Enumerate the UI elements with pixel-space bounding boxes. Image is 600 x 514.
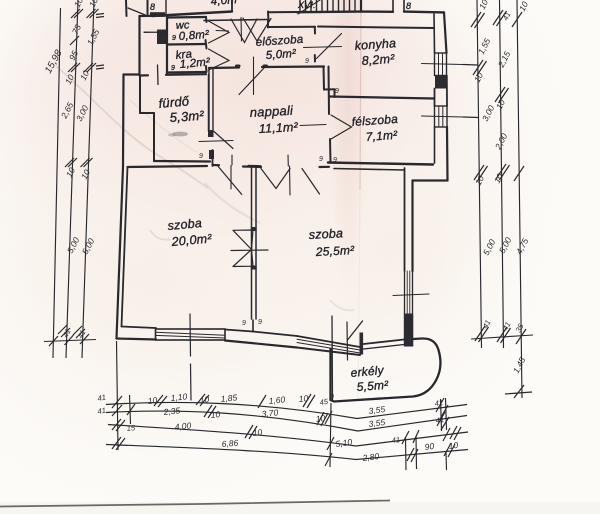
félszoba left wall upper bbox=[328, 67, 331, 115]
wc door extra tick bbox=[216, 30, 229, 33]
svg-text:9: 9 bbox=[330, 394, 334, 401]
svg-text:2,35: 2,35 bbox=[162, 405, 181, 417]
chain B4 bbox=[106, 445, 468, 460]
bottom dim labels bbox=[97, 391, 459, 463]
bottom wall szoba20 right part inner bbox=[225, 330, 253, 332]
witness line left inner bbox=[130, 395, 131, 424]
ticks y67 bbox=[68, 63, 80, 72]
smudge szoba20 curl bbox=[150, 230, 170, 240]
svg-text:10: 10 bbox=[210, 409, 221, 420]
top wall stairs to door8 bbox=[361, 10, 393, 13]
konyha left wall upper w/ door bbox=[314, 27, 316, 34]
duct hatched block bbox=[157, 30, 167, 45]
chain B2 bbox=[106, 411, 467, 431]
svg-text:9: 9 bbox=[335, 88, 339, 95]
svg-text:3,55: 3,55 bbox=[368, 417, 386, 429]
entry door swings (double leaf) bbox=[231, 19, 257, 43]
ticks R3 top bbox=[512, 12, 522, 27]
wall block below window (filled) bbox=[404, 314, 414, 347]
stair arrow bbox=[298, 0, 320, 14]
nappali-szoba20 door swing bbox=[218, 166, 242, 194]
room TL left wall stub bbox=[147, 0, 149, 14]
shaft left of wc bbox=[140, 14, 168, 17]
svg-text:10: 10 bbox=[252, 427, 263, 438]
konyha top inner wall bbox=[267, 21, 269, 28]
svg-text:1,60: 1,60 bbox=[268, 394, 286, 406]
fürdő left wall upper bbox=[139, 76, 141, 114]
svg-text:nappali: nappali bbox=[249, 103, 294, 120]
B1 ticks bbox=[112, 396, 122, 408]
svg-text:9: 9 bbox=[172, 35, 176, 42]
svg-text:25,5m²: 25,5m² bbox=[314, 243, 355, 259]
svg-text:6,86: 6,86 bbox=[221, 438, 239, 449]
smudge előszoba curl bbox=[205, 183, 260, 223]
félszoba inner right wall bbox=[434, 127, 436, 164]
konyha bottom wall = félszoba top bbox=[330, 97, 434, 99]
fürdő door joint block bbox=[208, 130, 214, 137]
chain B1 bbox=[106, 402, 467, 418]
B2 ticks bbox=[112, 405, 122, 416]
B3 ticks bbox=[112, 419, 125, 431]
konyha door leaf bbox=[317, 34, 342, 59]
door 8 swing top-left bbox=[128, 8, 149, 17]
nappali top door swing into nappali bbox=[239, 68, 264, 95]
svg-text:10: 10 bbox=[199, 394, 210, 405]
nappali top wall bbox=[209, 66, 239, 69]
9 markers bbox=[199, 58, 339, 401]
room TL corner block bbox=[150, 12, 165, 17]
ticks R2 y95 bbox=[495, 87, 509, 103]
svg-text:1,10: 1,10 bbox=[170, 391, 188, 403]
wall between windows (filled) bbox=[435, 76, 447, 89]
window inner lines bbox=[156, 332, 226, 338]
ticks R1 top bbox=[471, 12, 485, 28]
svg-text:9: 9 bbox=[319, 156, 323, 163]
konyha door crossing line bbox=[304, 47, 342, 48]
svg-text:szoba: szoba bbox=[167, 216, 202, 233]
right outer upper segment bbox=[444, 12, 447, 53]
B4 ticks bbox=[112, 437, 125, 450]
svg-text:5,3m²: 5,3m² bbox=[169, 108, 205, 125]
svg-text:8: 8 bbox=[406, 1, 411, 11]
right inner line upper bbox=[433, 14, 436, 53]
fürdő step bbox=[140, 112, 154, 114]
svg-text:9: 9 bbox=[305, 58, 309, 65]
konyha/nappali jog bbox=[324, 67, 335, 98]
szoba20 top wall bbox=[128, 166, 208, 167]
chain B3 bbox=[108, 425, 468, 447]
svg-text:9: 9 bbox=[333, 157, 337, 164]
svg-text:7,1m²: 7,1m² bbox=[365, 128, 398, 144]
room TL inner vertical bbox=[165, 0, 167, 15]
right dim labels bbox=[472, 0, 531, 375]
fürdő door crossing line bbox=[199, 141, 233, 142]
window center tick bbox=[190, 314, 191, 400]
svg-text:41: 41 bbox=[391, 435, 400, 445]
fürdő right wall double bbox=[208, 75, 210, 132]
bottom paper edge bbox=[0, 502, 600, 514]
szoba25 window band to balcony bbox=[297, 336, 360, 347]
stub from konyha window bbox=[463, 64, 478, 67]
ticks top group y13 bbox=[71, 9, 83, 18]
ticks R1 y68 bbox=[473, 60, 487, 76]
door 8 stub bbox=[393, 0, 404, 12]
fürdő door leaf diagonal bbox=[214, 132, 233, 149]
right chains end cross line bbox=[471, 335, 533, 339]
end witness verticals B1 B2 bbox=[441, 398, 447, 431]
stair bottom wall bbox=[297, 10, 361, 13]
entry inner threshold line bbox=[204, 20, 268, 21]
nappali bottom wall right segment bbox=[320, 166, 330, 168]
svg-text:10: 10 bbox=[315, 413, 326, 424]
wc room walls bbox=[166, 16, 168, 75]
bottom wall szoba20 right part outer bbox=[225, 341, 297, 348]
vertical witness balcony wall bbox=[330, 403, 331, 467]
szoba25 right window tick bbox=[393, 294, 429, 296]
divider top T-cap bbox=[249, 165, 261, 168]
left outer wall upper (wc block) bbox=[138, 16, 140, 75]
shaft tick bbox=[144, 31, 166, 34]
ticks y162 bbox=[65, 158, 77, 167]
balcony door leaf diagonals bbox=[348, 321, 363, 340]
svg-text:5,0m²: 5,0m² bbox=[265, 48, 297, 62]
stair risers bbox=[300, 0, 355, 12]
smudge blob fürdő bbox=[172, 132, 188, 137]
svg-text:10: 10 bbox=[448, 440, 459, 451]
balcony outline bbox=[364, 340, 405, 345]
right outer below window bbox=[446, 127, 449, 181]
nappali left wall lower (below bath door) bbox=[212, 150, 214, 166]
stub from félszoba window bbox=[463, 116, 479, 119]
svg-text:XVI.: XVI. bbox=[297, 0, 316, 10]
entry landing right jamb bbox=[267, 12, 270, 21]
= marks near building top bbox=[96, 14, 104, 18]
svg-text:90: 90 bbox=[424, 441, 435, 452]
chain L1 line (15,98 total) bbox=[53, 8, 61, 358]
fürdő door leaf vertical bbox=[157, 65, 160, 85]
SE jog outer bbox=[413, 179, 448, 181]
svg-text:8: 8 bbox=[150, 2, 155, 12]
witness line left outer wall bbox=[117, 341, 119, 450]
pink scan tint main bbox=[0, 0, 570, 420]
konyha window block bbox=[435, 53, 447, 76]
smudge szoba25 curl bbox=[330, 300, 354, 310]
szoba20 window sill block bbox=[156, 329, 226, 340]
svg-text:0,8m²: 0,8m² bbox=[178, 29, 210, 43]
room TL right wall bbox=[231, 0, 233, 12]
svg-text:41: 41 bbox=[97, 406, 107, 416]
fürdő top wall right of door bbox=[166, 73, 206, 76]
wall stairs-left to entry bbox=[268, 11, 297, 13]
fürdő left wall lower bbox=[153, 113, 155, 161]
kra door swing bbox=[209, 49, 230, 70]
svg-text:11,1m²: 11,1m² bbox=[258, 120, 298, 136]
balcony door jamb block bbox=[360, 333, 364, 355]
svg-text:10: 10 bbox=[147, 395, 158, 406]
nappali bottom wall left segment bbox=[213, 164, 220, 166]
left dim labels bbox=[43, 0, 101, 340]
bottom inner wall szoba20 left bbox=[122, 327, 157, 329]
neighbor left wall bbox=[125, 0, 128, 16]
left inner wall line szoba20 bbox=[122, 167, 128, 327]
svg-text:41: 41 bbox=[97, 393, 107, 403]
félszoba window sill line bbox=[422, 116, 464, 117]
svg-text:4,00: 4,00 bbox=[174, 420, 192, 432]
chain R1 line bbox=[477, 0, 482, 348]
svg-text:9: 9 bbox=[242, 320, 246, 327]
verticals near right end B3/B4 bbox=[406, 436, 417, 470]
svg-text:3,55: 3,55 bbox=[368, 404, 386, 416]
stair right wall bbox=[360, 0, 362, 12]
room TL bottom wall bbox=[152, 12, 232, 17]
svg-text:konyha: konyha bbox=[354, 36, 396, 53]
chain L2 line bbox=[66, 0, 78, 358]
svg-text:9: 9 bbox=[258, 319, 262, 326]
chain L3 line bbox=[82, 0, 94, 358]
wc door swing bbox=[209, 21, 230, 43]
nappali bottom wall T segment bbox=[243, 165, 261, 168]
end cross tick bbox=[44, 340, 96, 342]
bottom inner szoba25 bbox=[253, 332, 297, 337]
szoba25 right outer wall bbox=[411, 181, 413, 272]
chain R3 line bbox=[517, 0, 522, 398]
konyha window sill line bbox=[422, 64, 464, 65]
nappali-szoba25 double door swings bbox=[261, 169, 290, 189]
ticks y170 all bbox=[474, 165, 488, 181]
ticks y335 group bbox=[475, 326, 489, 342]
svg-text:5,5m²: 5,5m² bbox=[356, 378, 389, 394]
félszoba door: leaf line in nappali bbox=[300, 125, 326, 126]
svg-text:8,2m²: 8,2m² bbox=[361, 52, 395, 68]
szoba25 right inner wall bbox=[404, 168, 406, 271]
félszoba window block bbox=[435, 106, 448, 127]
svg-text:9: 9 bbox=[171, 65, 175, 72]
chain R2 line bbox=[500, 0, 504, 348]
fürdő top wall left of door bbox=[140, 74, 149, 76]
félszoba door swing bbox=[331, 115, 352, 139]
pencil smudge in fürdő bbox=[56, 66, 208, 188]
svg-text:szoba: szoba bbox=[308, 226, 343, 242]
fold crease shading bbox=[328, 0, 368, 300]
svg-text:10: 10 bbox=[298, 393, 309, 404]
R3 end tick bbox=[505, 385, 532, 398]
svg-text:41: 41 bbox=[435, 415, 444, 425]
félszoba left wall lower bbox=[329, 139, 332, 162]
ticks y330 (41 group) bbox=[58, 325, 70, 337]
top wall door8 to NE corner bbox=[404, 10, 444, 13]
szoba25 right window bbox=[405, 271, 413, 314]
divider joint blocks bbox=[251, 227, 257, 231]
stove symbol between szobas bbox=[233, 230, 254, 250]
step at bath bbox=[124, 73, 140, 75]
szoba25 top wall line (inner) bbox=[334, 169, 405, 171]
svg-text:1,85: 1,85 bbox=[220, 392, 238, 404]
kra room walls bbox=[167, 71, 206, 74]
svg-text:3,70: 3,70 bbox=[261, 407, 279, 419]
svg-text:41: 41 bbox=[434, 398, 443, 408]
balcony door leaf vertical bbox=[331, 316, 334, 400]
ticks R2 top bbox=[493, 10, 507, 26]
tick L2 y40 bbox=[70, 36, 79, 45]
fürdő bottom wall bbox=[154, 160, 210, 163]
szoba divider wall double bbox=[252, 167, 257, 319]
nappali left wall upper bbox=[209, 68, 213, 131]
svg-text:9: 9 bbox=[199, 153, 203, 160]
left outer wall lower bbox=[117, 75, 124, 339]
bottom outer wall szoba20 bbox=[117, 339, 157, 340]
konyha left wall lower block bbox=[314, 55, 316, 62]
window end tick bbox=[346, 322, 349, 360]
félszoba bottom wall bbox=[328, 163, 433, 165]
